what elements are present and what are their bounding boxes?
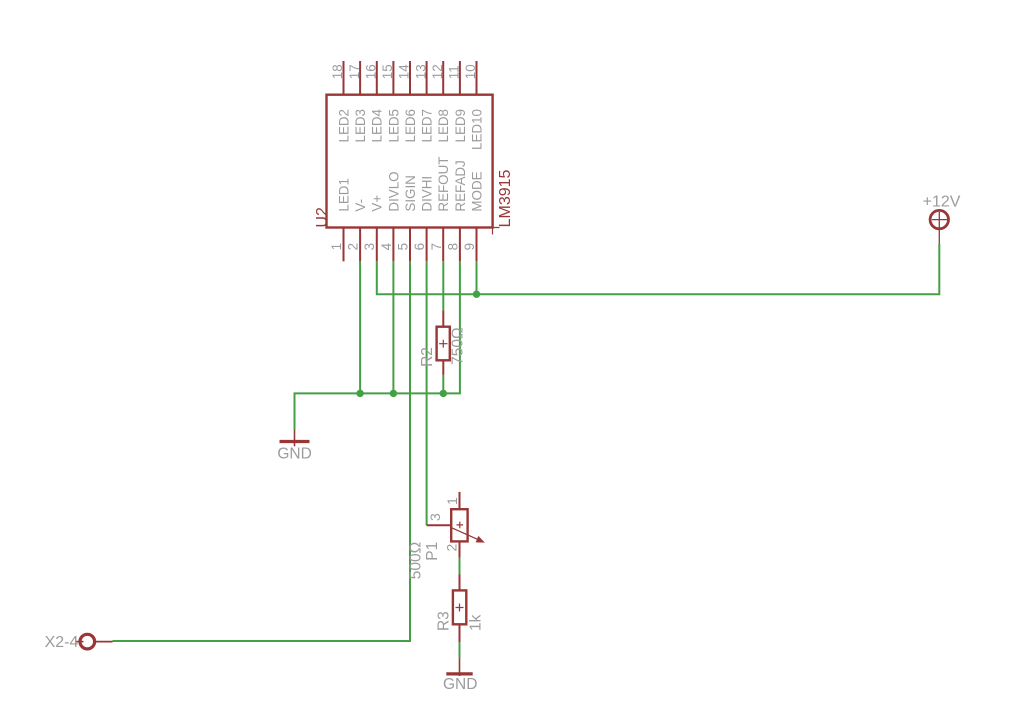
svg-text:15: 15 (380, 64, 395, 79)
U2 pin 14 (LED6) (397, 61, 418, 143)
svg-text:1: 1 (329, 243, 344, 250)
svg-text:LED4: LED4 (370, 108, 385, 142)
svg-text:LED6: LED6 (403, 109, 418, 143)
U2 pin 3 (V+) (362, 195, 384, 262)
svg-text:14: 14 (397, 64, 412, 79)
svg-text:2: 2 (346, 243, 361, 250)
svg-text:12: 12 (430, 64, 445, 79)
svg-text:LED3: LED3 (353, 109, 368, 143)
svg-text:X2-4: X2-4 (45, 634, 79, 651)
potentiometer P1 body (427, 492, 485, 558)
connector pad X2-4 (75, 634, 113, 649)
svg-text:U2: U2 (314, 207, 331, 228)
+12V supply symbol (930, 210, 948, 243)
U2 pin 16 (LED4) (363, 61, 384, 143)
U2 pin 8 (REFADJ) (445, 160, 467, 261)
U2 pin 12 (LED8) (430, 61, 451, 143)
resistor R2 body (437, 310, 450, 374)
U2 pin 5 (SIGIN) (396, 175, 418, 261)
wire pin3 V+ to +12V supply (377, 244, 940, 295)
svg-text:1: 1 (444, 497, 460, 505)
U2 pin 1 (LED1) (329, 178, 351, 261)
svg-text:1k: 1k (468, 614, 485, 631)
junction R2 / GND bus (440, 390, 447, 397)
svg-text:6: 6 (412, 243, 427, 250)
junction MODE / +12V net (473, 291, 480, 298)
wire pin6 DIVHI to P1 wiper (426, 261, 428, 525)
svg-text:4: 4 (379, 242, 394, 250)
svg-text:LED5: LED5 (386, 109, 401, 143)
svg-text:13: 13 (413, 64, 428, 79)
svg-text:REFOUT: REFOUT (436, 157, 451, 212)
svg-text:11: 11 (447, 65, 462, 79)
U2 pin 18 (LED2) (330, 61, 351, 143)
svg-text:8: 8 (445, 243, 460, 250)
U2 pin 9 (MODE) (462, 171, 484, 261)
U2 pin 2 (V-) (346, 199, 368, 261)
wire R3 to GND symbol (459, 642, 461, 657)
svg-text:LED9: LED9 (453, 109, 468, 143)
svg-text:GND: GND (443, 676, 477, 693)
svg-text:750Ω: 750Ω (450, 327, 467, 364)
U2 pin 4 (DIVLO) (379, 171, 401, 261)
wire pin7 REFOUT to R2 (442, 261, 444, 310)
wire pin2 V- to GND bus (359, 261, 361, 393)
svg-text:18: 18 (330, 64, 345, 79)
ground symbol (GND bus) (280, 429, 310, 446)
U2 pin 7 (REFOUT) (429, 157, 451, 262)
svg-text:2: 2 (444, 544, 460, 552)
U2 pin 11 (LED9) (447, 61, 468, 143)
svg-text:MODE: MODE (469, 171, 484, 211)
svg-text:DIVLO: DIVLO (386, 171, 401, 211)
junction V- / GND bus (356, 390, 363, 397)
U2 pin 6 (DIVHI) (412, 176, 434, 261)
svg-text:LM3915: LM3915 (497, 169, 514, 227)
svg-text:LED2: LED2 (336, 109, 351, 143)
svg-text:V+: V+ (370, 195, 385, 212)
ground symbol (below R3) (446, 657, 472, 676)
svg-text:3: 3 (427, 513, 443, 521)
wire pin5 SIGIN to X2-4 (113, 261, 411, 641)
wire R2 to GND bus (442, 375, 444, 394)
svg-text:GND: GND (277, 445, 311, 462)
junction DIVLO / GND bus (390, 390, 397, 397)
svg-text:R3: R3 (435, 611, 452, 631)
svg-text:+12V: +12V (923, 194, 961, 211)
svg-text:16: 16 (363, 64, 378, 79)
svg-text:3: 3 (362, 243, 377, 250)
wire P1 pin2 to R3 (459, 558, 461, 575)
U2 pin 17 (LED3) (347, 61, 368, 143)
svg-text:9: 9 (462, 243, 477, 250)
svg-text:REFADJ: REFADJ (453, 160, 468, 211)
U2 pin 15 (LED5) (380, 61, 401, 143)
svg-text:V-: V- (353, 199, 368, 212)
svg-text:LED10: LED10 (469, 109, 484, 150)
wire pin8 REFADJ / GND bus to GND symbol (295, 261, 460, 429)
svg-text:LED1: LED1 (336, 178, 351, 212)
U2 origin cross (486, 221, 500, 235)
svg-text:LED8: LED8 (436, 109, 451, 143)
svg-text:DIVHI: DIVHI (420, 176, 435, 212)
svg-text:17: 17 (347, 64, 362, 79)
svg-text:5: 5 (396, 243, 411, 250)
svg-text:7: 7 (429, 243, 444, 250)
svg-text:LED7: LED7 (420, 109, 435, 143)
wire pin9 MODE to +12V net (476, 261, 478, 294)
U2 pin 10 (LED10) (463, 61, 484, 150)
svg-text:10: 10 (463, 64, 478, 79)
wire pin4 DIVLO to GND bus (392, 261, 394, 393)
IC U2 LM3915 body (327, 95, 493, 228)
svg-text:500Ω: 500Ω (407, 542, 424, 579)
svg-text:R2: R2 (419, 347, 436, 367)
svg-text:SIGIN: SIGIN (403, 175, 418, 211)
svg-text:P1: P1 (424, 542, 441, 561)
resistor R3 body (453, 575, 466, 643)
U2 pin 13 (LED7) (413, 61, 434, 143)
